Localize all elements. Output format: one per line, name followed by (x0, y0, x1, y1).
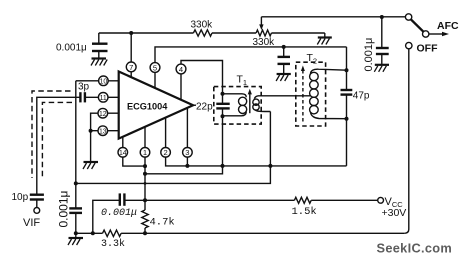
wire pin10 (76, 80, 119, 82)
wire pin13 (91, 130, 119, 132)
svg-text:2: 2 (163, 148, 167, 157)
svg-text:4.7k: 4.7k (150, 217, 175, 229)
resistor R3 4.7k (142, 200, 175, 233)
wire pin12 (91, 113, 119, 131)
capacitor C1 0.001u top-left (56, 33, 108, 59)
svg-text:ECG1004: ECG1004 (127, 101, 168, 111)
node dot C3 (282, 45, 286, 49)
svg-text:47p: 47p (353, 91, 370, 102)
wire pin14 (123, 137, 145, 166)
node dot T2 bottom (345, 117, 349, 121)
capacitor C3 bypass (278, 47, 291, 74)
node dot 4.7k bottom (143, 231, 147, 235)
svg-text:330k: 330k (191, 20, 214, 31)
node dot pin12/13 (89, 129, 93, 133)
node dot T2 top (345, 68, 349, 72)
svg-text:7: 7 (129, 63, 133, 72)
node dot Vcc riser bottom (91, 231, 95, 235)
node dot lineC left (74, 181, 78, 185)
pin 1 (140, 148, 150, 158)
svg-text:14: 14 (119, 150, 127, 157)
node dot lineC pin1 crossing (144, 182, 147, 185)
switch S1 AFC/OFF (405, 14, 459, 55)
pin 7 (126, 62, 136, 72)
capacitor C4 0.001u bottom-left (57, 190, 83, 233)
svg-text:0.001μ: 0.001μ (56, 43, 87, 54)
ground under pin13 (83, 162, 98, 169)
pin 13 (98, 126, 108, 136)
T1 core arrow (248, 89, 252, 113)
node dot pin14/pin1 (143, 164, 147, 168)
pin 11 (98, 93, 108, 103)
svg-text:3p: 3p (78, 82, 90, 93)
wire R2 to ground (271, 33, 324, 37)
node dot 22p bottom (221, 114, 225, 118)
pin 2 (161, 148, 171, 158)
node dot C2 top (380, 15, 384, 19)
node dot T1 secondary vertical on lineA (268, 164, 272, 168)
wire wiper to switch (261, 16, 405, 18)
terminal Vcc (378, 196, 407, 219)
shield dashed inner (42, 102, 72, 178)
ground under C2 (374, 65, 389, 72)
resistor R5 3.3k (101, 230, 125, 250)
wire output stub (193, 104, 196, 106)
svg-text:1: 1 (143, 148, 147, 157)
wire line C bypass to T1 secondary (76, 112, 271, 184)
wire line B T1 bottom to pin1 (145, 124, 223, 174)
node dot pin7 rail (129, 31, 133, 35)
wire pin13 to ground (90, 131, 92, 162)
svg-text:1.5k: 1.5k (292, 206, 317, 218)
wire pin7 up (130, 33, 132, 62)
capacitor C6 10p (12, 192, 44, 208)
wire OFF contact down to bottom rail (404, 49, 409, 234)
node dot T1 vertical on lineA (221, 164, 225, 168)
shield dashed outer (32, 91, 71, 178)
wire R1 to R2 (212, 32, 256, 34)
pin 14 (118, 148, 128, 158)
svg-text:AFC: AFC (437, 20, 459, 32)
wire pin4 stub (180, 74, 182, 100)
svg-text:VIF: VIF (23, 217, 40, 229)
capacitor C9 0.001u series (101, 193, 137, 218)
wire pin5 stub (154, 73, 156, 89)
capacitor C5 3p (78, 82, 90, 103)
svg-text:OFF: OFF (417, 43, 439, 55)
wire 1.5k to Vcc terminal (311, 199, 378, 201)
capacitor C7 22p (216, 87, 229, 125)
op-amp U1 ECG1004 triangle (119, 72, 193, 139)
node dot Vcc rail pin1 (143, 198, 147, 202)
svg-text:4: 4 (179, 65, 183, 74)
wire Vcc rail (125, 199, 295, 201)
wire bottom ground rail (76, 232, 405, 234)
wire pin10 vertical left rail (75, 81, 77, 208)
ground under C1 (91, 59, 107, 66)
svg-text:3.3k: 3.3k (101, 238, 125, 250)
pin 3 (183, 148, 193, 158)
node dot pin3 on lineA (185, 164, 189, 168)
resistor R4 1.5k (292, 197, 317, 218)
T1 primary coil (223, 94, 247, 116)
wire pin7 stub (130, 72, 132, 77)
svg-text:0.001μ: 0.001μ (101, 208, 137, 219)
svg-text:3: 3 (185, 148, 189, 157)
pin 10 (99, 76, 109, 86)
ground right of R2 (317, 38, 332, 45)
wire top rail (99, 32, 194, 34)
svg-text:0.001μ: 0.001μ (363, 38, 375, 72)
capacitor C2 0.001u top-right (363, 17, 389, 72)
svg-text:SeekIC.com: SeekIC.com (377, 241, 453, 256)
svg-text:12: 12 (99, 111, 107, 118)
svg-text:22p: 22p (196, 102, 213, 113)
T2 core dashed arrow (301, 66, 305, 122)
transformer T1 box (214, 87, 261, 125)
wire pin1 vertical (144, 127, 146, 201)
T2 coil (310, 69, 347, 119)
wire T1 secondary to T2 tap (258, 95, 310, 97)
svg-text:+30V: +30V (382, 207, 407, 219)
resistor R1 330k (191, 20, 214, 37)
wire pin4 net to T1 top (181, 61, 223, 87)
svg-text:0.001μ: 0.001μ (57, 190, 71, 227)
resistor R2 330k potentiometer (253, 30, 276, 48)
wire Vcc rail riser (93, 200, 120, 233)
wire 3p to VIF line (37, 97, 81, 194)
node dot 22p top (221, 92, 225, 96)
svg-text:11: 11 (100, 95, 107, 102)
svg-text:5: 5 (153, 63, 157, 72)
capacitor C8 47p (341, 90, 370, 102)
wire pin5 net (155, 47, 347, 63)
transformer T2 box (296, 62, 326, 126)
wire pin3 (186, 108, 188, 166)
ground symbol bottom-left (68, 233, 83, 245)
svg-text:10p: 10p (12, 192, 29, 203)
node dot ground left (74, 231, 78, 235)
pin 4 (176, 64, 186, 74)
pin 12 (98, 108, 108, 118)
pin 5 (150, 63, 160, 73)
terminal VIF (23, 208, 40, 230)
wire pin11 with 3p cap (85, 96, 119, 98)
node dot pin1 lineB (143, 172, 147, 176)
wiper arrow of R2 (259, 17, 263, 30)
T1 secondary coil (253, 96, 271, 112)
wire 47p vertical (346, 47, 348, 166)
svg-text:13: 13 (99, 129, 107, 136)
ground under C3 (276, 74, 291, 81)
svg-text:10: 10 (100, 79, 108, 86)
wire pin2 net line A (166, 118, 347, 166)
